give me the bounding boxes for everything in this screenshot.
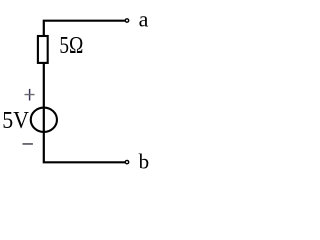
polarity plus sign (horizontal bar): [25, 94, 35, 95]
voltage source U1 circle (5V ideal source, wire passes through): [31, 108, 57, 132]
terminal b open dot: [125, 160, 128, 163]
wire: vertical from resistor bottom through source circle, then bottom horizontal to terminal b: [44, 63, 125, 162]
polarity minus sign: [23, 143, 33, 145]
terminal a open dot: [125, 19, 128, 22]
svg-text:b: b: [139, 149, 150, 173]
svg-text:5Ω: 5Ω: [59, 32, 83, 59]
svg-text:a: a: [139, 7, 149, 32]
wire: top horizontal from terminal a over to resistor, then down to resistor top: [44, 21, 125, 36]
resistor R1 5-ohm rectangle body: [38, 36, 48, 63]
svg-text:5V: 5V: [2, 107, 29, 134]
polarity plus sign (vertical bar): [29, 89, 31, 101]
